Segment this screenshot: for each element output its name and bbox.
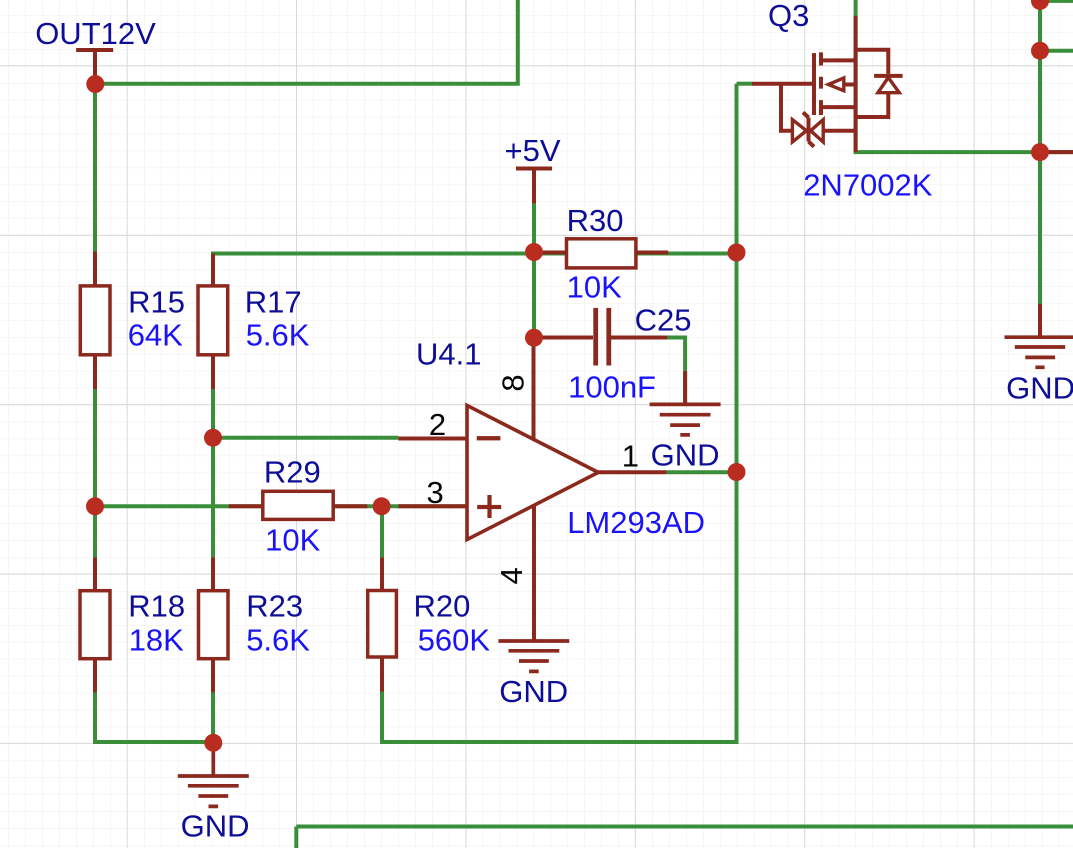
svg-text:R18: R18 <box>128 588 185 623</box>
svg-text:3: 3 <box>427 475 444 510</box>
svg-text:R15: R15 <box>128 284 185 319</box>
svg-text:+5V: +5V <box>505 133 561 168</box>
svg-text:R30: R30 <box>567 203 624 238</box>
svg-text:C25: C25 <box>635 302 692 337</box>
svg-text:GND: GND <box>651 438 720 473</box>
svg-text:R23: R23 <box>246 588 303 623</box>
svg-text:OUT12V: OUT12V <box>35 16 156 51</box>
svg-text:100nF: 100nF <box>568 370 656 405</box>
svg-text:18K: 18K <box>129 622 184 657</box>
svg-text:U4.1: U4.1 <box>416 336 481 371</box>
svg-text:5.6K: 5.6K <box>246 318 310 353</box>
svg-text:R17: R17 <box>245 284 302 319</box>
svg-text:5.6K: 5.6K <box>246 622 310 657</box>
svg-text:GND: GND <box>1006 371 1073 406</box>
svg-text:GND: GND <box>181 809 250 844</box>
svg-text:4: 4 <box>494 567 529 584</box>
svg-text:GND: GND <box>499 674 568 709</box>
svg-text:10K: 10K <box>265 523 320 558</box>
svg-text:2: 2 <box>429 407 446 442</box>
svg-text:R20: R20 <box>414 588 471 623</box>
svg-text:1: 1 <box>622 439 639 474</box>
svg-text:LM293AD: LM293AD <box>567 505 705 540</box>
svg-text:560K: 560K <box>418 622 491 657</box>
svg-text:R29: R29 <box>264 454 321 489</box>
svg-text:Q3: Q3 <box>768 0 809 33</box>
svg-text:64K: 64K <box>128 318 183 353</box>
svg-text:2N7002K: 2N7002K <box>803 167 933 202</box>
svg-text:8: 8 <box>495 374 530 391</box>
svg-text:10K: 10K <box>567 269 622 304</box>
